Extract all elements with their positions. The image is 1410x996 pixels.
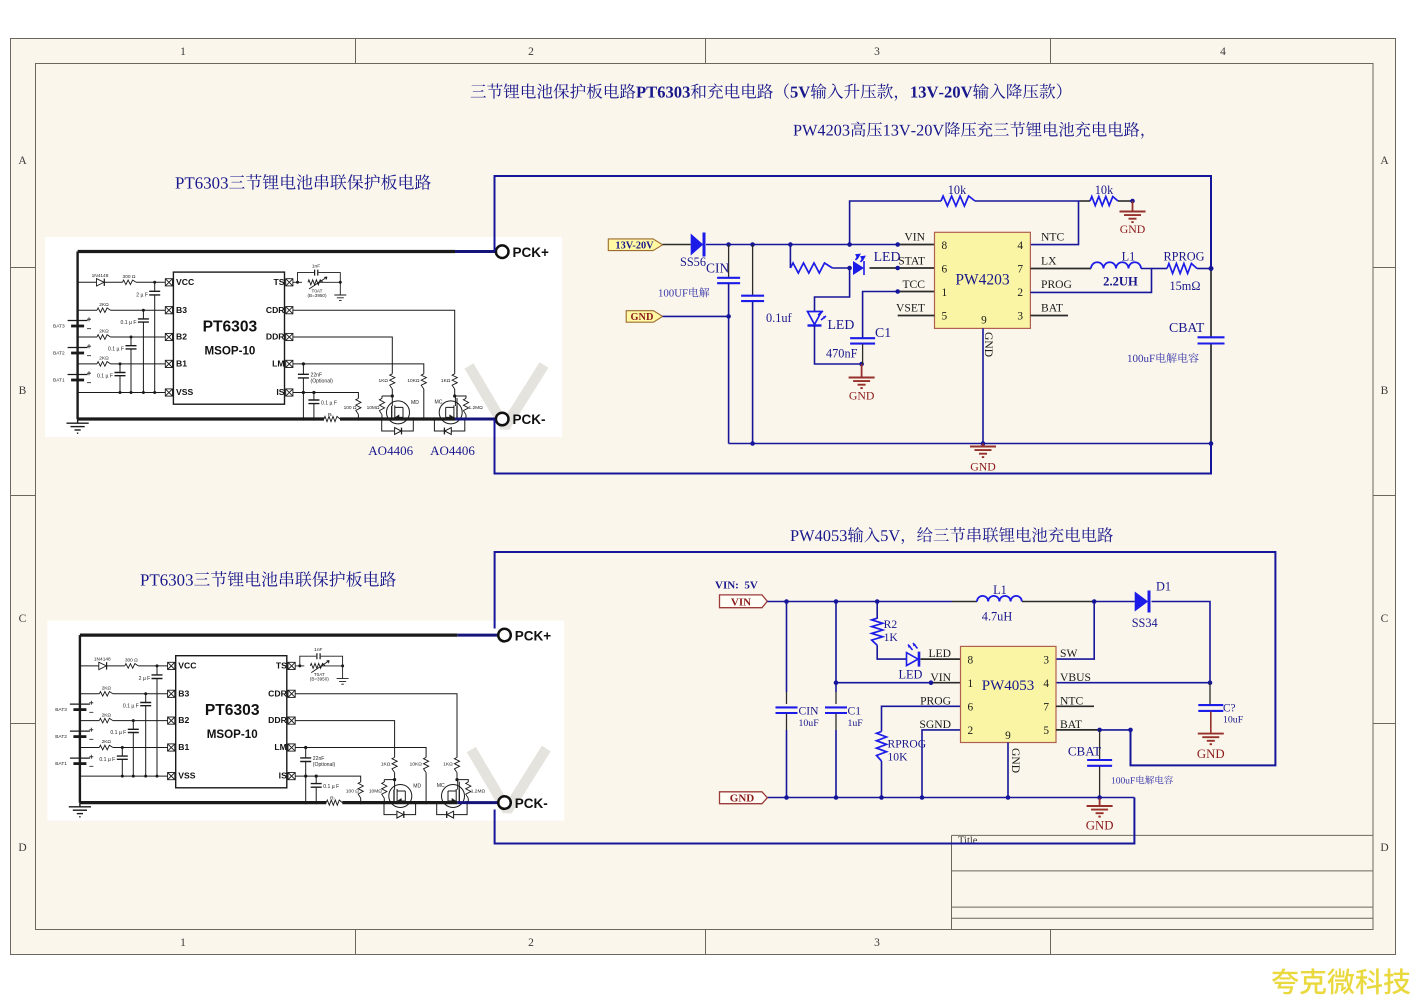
wire LM	[293, 364, 424, 374]
wire SGND	[922, 730, 961, 798]
ground (image)	[67, 419, 89, 433]
LED (STAT)	[853, 255, 865, 276]
svg-text:CIN: CIN	[706, 261, 730, 276]
op-amp U2 PW4053	[961, 646, 1057, 742]
svg-text:LED: LED	[828, 317, 855, 332]
ground symbol at 10k	[1132, 201, 1134, 212]
wire ground rail	[729, 443, 1211, 445]
watermark	[469, 365, 544, 427]
svg-text:BAT: BAT	[1060, 718, 1082, 731]
svg-text:VSET: VSET	[896, 302, 925, 315]
svg-text:5: 5	[942, 311, 948, 323]
thermistor network on TS	[293, 270, 346, 301]
body diode M2	[434, 419, 464, 434]
svg-text:0.1 µ F: 0.1 µ F	[108, 347, 124, 353]
svg-text:C: C	[19, 613, 27, 625]
svg-text:BAT1: BAT1	[53, 378, 65, 384]
wire 10k row	[850, 201, 941, 245]
svg-text:AO4406: AO4406	[368, 443, 413, 458]
svg-text:7: 7	[1017, 263, 1023, 275]
svg-text:470nF: 470nF	[826, 347, 858, 361]
svg-text:GND: GND	[970, 460, 996, 474]
wire PCK- to bottom edge	[495, 419, 1212, 474]
svg-text:10K: 10K	[888, 751, 909, 764]
svg-text:1.2MΩ: 1.2MΩ	[469, 405, 484, 411]
battery BAT1	[68, 374, 88, 376]
resistor RPROG 10K	[882, 706, 961, 731]
svg-text:0.1 µ F: 0.1 µ F	[321, 401, 337, 407]
inductor L1 4.7uH	[977, 596, 1022, 602]
resistor 2K (B2)	[97, 335, 111, 340]
svg-text:D1: D1	[1156, 580, 1171, 594]
svg-text:4.7uH: 4.7uH	[982, 610, 1013, 624]
svg-text:13V-20V: 13V-20V	[615, 241, 654, 252]
svg-text:(Optional): (Optional)	[311, 379, 334, 385]
wire TCC	[863, 292, 898, 339]
wire NTC to 10k row	[1030, 201, 1078, 245]
wire VBUS	[1056, 682, 1210, 684]
svg-text:C1: C1	[848, 705, 862, 718]
resistor R2 1K	[876, 602, 878, 619]
svg-text:GND: GND	[1197, 747, 1225, 761]
resistor Rs inline	[324, 416, 340, 421]
svg-text:BAT2: BAT2	[53, 351, 65, 357]
capacitor CIN 10uF	[786, 602, 788, 693]
svg-text:6: 6	[968, 702, 974, 714]
ground symbol (LED/C1)	[861, 364, 863, 378]
svg-text:GND: GND	[982, 332, 995, 357]
pin VSS	[165, 389, 172, 396]
svg-text:2: 2	[528, 46, 534, 58]
battery BAT3	[68, 320, 88, 322]
pin CDR	[286, 307, 293, 314]
svg-text:7: 7	[1043, 702, 1049, 714]
svg-text:VIN: VIN	[904, 231, 925, 244]
svg-text:1: 1	[180, 937, 186, 949]
PT6303 protection-board sub-circuit image (top instance)	[45, 237, 562, 437]
svg-text:D: D	[18, 842, 26, 854]
svg-text:B2: B2	[176, 332, 187, 342]
PW4053 circuit	[495, 552, 1276, 844]
capacitor C1 470nF	[850, 338, 875, 343]
net tag VIN	[720, 595, 768, 608]
svg-text:GND: GND	[849, 389, 875, 403]
svg-text:100 Ω: 100 Ω	[344, 405, 357, 411]
transistor M1 (AO4406)	[387, 401, 410, 424]
svg-text:SS56: SS56	[680, 255, 706, 269]
svg-text:LED: LED	[874, 249, 901, 264]
svg-text:4: 4	[1043, 678, 1049, 690]
svg-text:PCK-: PCK-	[515, 796, 548, 811]
connector PCK-	[496, 413, 509, 426]
capacitor 22nF	[302, 364, 304, 393]
svg-text:3: 3	[1017, 311, 1023, 323]
svg-text:PCK+: PCK+	[513, 245, 550, 260]
svg-text:2: 2	[968, 725, 974, 737]
svg-text:PCK+: PCK+	[515, 628, 552, 643]
svg-text:2: 2	[1017, 287, 1023, 299]
svg-text:CBAT: CBAT	[1068, 744, 1101, 759]
svg-text:GND: GND	[1009, 748, 1022, 773]
svg-text:1KΩ: 1KΩ	[379, 378, 389, 384]
svg-text:GND: GND	[730, 793, 755, 805]
resistor 1.2M	[455, 396, 466, 398]
capacitor C1 1uF	[835, 602, 837, 683]
svg-text:8: 8	[942, 240, 948, 252]
svg-text:2 µ F: 2 µ F	[136, 293, 148, 299]
svg-text:1K: 1K	[884, 631, 899, 644]
svg-text:C1: C1	[875, 325, 891, 340]
svg-text:10MΩ: 10MΩ	[367, 405, 380, 411]
pin B3	[165, 307, 172, 314]
svg-text:CIN: CIN	[799, 705, 820, 718]
svg-text:10uF: 10uF	[799, 718, 820, 729]
svg-text:300 Ω: 300 Ω	[123, 274, 136, 280]
capacitor 0.1uf	[752, 245, 754, 296]
connector PCK-	[498, 796, 511, 809]
PW4203 circuit	[495, 176, 1225, 474]
svg-text:1uF: 1uF	[848, 718, 864, 729]
diode D1 SS34	[1135, 592, 1149, 612]
svg-text:10uF: 10uF	[1223, 715, 1244, 726]
svg-text:1: 1	[968, 678, 974, 690]
body diode M1	[382, 419, 414, 434]
resistor 2K (B1)	[97, 362, 111, 367]
svg-text:AO4406: AO4406	[430, 443, 475, 458]
svg-text:PT6303: PT6303	[203, 318, 258, 335]
svg-text:CBAT: CBAT	[1169, 320, 1205, 335]
svg-text:4: 4	[1220, 46, 1226, 58]
capacitor C? 10uF	[1209, 683, 1211, 705]
capacitor CIN	[728, 245, 730, 278]
svg-text:C: C	[1381, 613, 1389, 625]
svg-text:2KΩ: 2KΩ	[99, 329, 109, 335]
svg-text:0.1uf: 0.1uf	[766, 311, 793, 325]
svg-text:CDR: CDR	[266, 305, 285, 315]
svg-text:TCC: TCC	[902, 278, 925, 291]
svg-text:PCK-: PCK-	[513, 412, 546, 427]
svg-text:BAT: BAT	[1041, 302, 1063, 315]
svg-text:DDR: DDR	[266, 332, 285, 342]
inductor L1 2.2UH	[1091, 262, 1141, 268]
svg-text:IS: IS	[276, 387, 284, 397]
net label 13V-20V	[608, 239, 662, 251]
svg-text:1: 1	[180, 46, 186, 58]
resistor 10M	[381, 396, 383, 398]
wire thick top	[78, 250, 455, 253]
svg-text:STAT: STAT	[898, 254, 925, 267]
capacitor 0.1uF column x=143.4	[142, 310, 144, 392]
label 100uF电解电容	[1128, 353, 1199, 363]
svg-text:4: 4	[1017, 240, 1023, 252]
svg-text:B: B	[19, 385, 27, 397]
svg-text:MSOP-10: MSOP-10	[204, 345, 255, 358]
resistor 300	[123, 280, 137, 285]
svg-text:1nF: 1nF	[312, 264, 320, 270]
resistor 10K (LM)	[421, 374, 426, 389]
watermark 夸克微科技	[1272, 968, 1410, 994]
resistor 10k #1	[941, 196, 975, 206]
svg-text:Rₗ: Rₗ	[328, 412, 332, 418]
svg-text:3: 3	[874, 46, 880, 58]
diode 1N4148	[97, 279, 105, 286]
PT6303 sub-circuit image (bottom instance)	[47, 621, 564, 821]
label 100UF电解	[659, 287, 709, 297]
wire IS	[293, 393, 359, 399]
capacitor 2uF column	[154, 282, 156, 392]
wire pin9 SGND	[1007, 743, 1009, 798]
subtitle bottom-left	[140, 571, 395, 587]
battery BAT2	[68, 347, 88, 349]
wire VIN rail	[767, 601, 952, 603]
resistor 100ohm	[356, 398, 361, 414]
svg-text:6: 6	[942, 263, 948, 275]
wire LX	[1030, 268, 1091, 270]
svg-text:VIN: VIN	[731, 596, 751, 608]
svg-text:D: D	[1380, 842, 1388, 854]
svg-text:PROG: PROG	[920, 694, 952, 707]
transistor M2 (AO4406)	[439, 401, 462, 424]
svg-text:SW: SW	[1060, 647, 1077, 660]
title line 2	[793, 122, 1143, 139]
svg-text:1KΩ: 1KΩ	[441, 378, 451, 384]
wire B3 row	[78, 309, 166, 311]
svg-text:5: 5	[1043, 725, 1049, 737]
main title line 1	[471, 83, 1062, 100]
wire PCK+ to top edge / BAT loop	[495, 552, 1276, 765]
svg-text:A: A	[18, 155, 27, 167]
wire VIN pin	[836, 682, 931, 684]
svg-text:BAT3: BAT3	[53, 324, 65, 330]
wire VSS row	[78, 392, 166, 394]
wire B1 row	[78, 363, 166, 365]
resistor 1K (CDR)	[452, 374, 457, 389]
svg-text:R2: R2	[884, 618, 898, 631]
svg-text:2.2UH: 2.2UH	[1103, 275, 1138, 289]
title block	[952, 835, 1374, 929]
svg-text:MC: MC	[435, 400, 443, 406]
svg-text:10k: 10k	[1095, 183, 1114, 197]
svg-text:NTC: NTC	[1041, 231, 1064, 244]
pin B1	[165, 360, 172, 367]
svg-text:GND: GND	[1120, 222, 1146, 236]
svg-text:A: A	[1380, 155, 1389, 167]
svg-text:GND: GND	[631, 312, 654, 323]
connector PCK+	[498, 629, 511, 642]
wire VIN rail	[663, 244, 691, 246]
svg-text:1: 1	[942, 287, 948, 299]
capacitor CBAT	[1198, 337, 1225, 343]
wire SW	[1056, 602, 1094, 660]
svg-text:GND: GND	[1086, 819, 1114, 833]
wire CBAT right edge segments	[1210, 269, 1212, 338]
svg-text:RPROG: RPROG	[888, 738, 927, 751]
svg-text:VIN: 5V: VIN: 5V	[715, 580, 758, 592]
svg-text:SS34: SS34	[1132, 616, 1158, 630]
svg-text:VIN: VIN	[930, 671, 951, 684]
svg-text:Title: Title	[958, 836, 978, 847]
svg-text:PW4053: PW4053	[982, 678, 1035, 694]
wire VCC row	[78, 281, 166, 283]
wire thick bottom	[78, 417, 324, 420]
svg-text:PW4203: PW4203	[955, 271, 1010, 288]
ground symbol bottom	[982, 444, 984, 447]
wire GND rail	[767, 797, 1134, 799]
resistor (STAT series)	[789, 245, 791, 269]
svg-text:LED: LED	[899, 667, 923, 681]
svg-text:0.1 µ F: 0.1 µ F	[121, 320, 137, 326]
pin DDR	[286, 333, 293, 340]
wire BAT	[1056, 729, 1100, 731]
svg-text:2KΩ: 2KΩ	[99, 356, 109, 362]
wire DDR	[293, 337, 392, 374]
pin VCC	[165, 279, 172, 286]
svg-text:(B=3950): (B=3950)	[307, 293, 326, 298]
PW4053 title	[790, 527, 1112, 544]
svg-text:VCC: VCC	[176, 277, 194, 287]
svg-text:B: B	[1381, 385, 1389, 397]
capacitor 0.1uF (IS)	[313, 393, 315, 420]
svg-text:C?: C?	[1223, 703, 1236, 715]
resistor 1K (DDR)	[390, 374, 395, 389]
pin IS	[286, 389, 293, 396]
svg-text:1N4148: 1N4148	[92, 273, 109, 279]
svg-text:VSS: VSS	[176, 387, 193, 397]
svg-text:SGND: SGND	[919, 718, 951, 731]
capacitor CBAT	[1099, 730, 1101, 760]
resistor RPROG 15mohm	[1167, 264, 1197, 274]
diode SS56	[691, 234, 704, 256]
svg-text:B3: B3	[176, 305, 187, 315]
LED (lower, vertical)	[808, 312, 822, 325]
LED indicator	[907, 653, 919, 666]
svg-text:LED: LED	[928, 647, 951, 660]
svg-text:B1: B1	[176, 359, 187, 369]
svg-text:3: 3	[1043, 654, 1049, 666]
resistor 10k #2	[1090, 197, 1118, 206]
ground symbol CBAT	[1099, 798, 1101, 807]
pin LM	[286, 360, 293, 367]
svg-text:9: 9	[1005, 730, 1011, 742]
svg-text:LM: LM	[272, 359, 284, 369]
svg-text:MD: MD	[411, 400, 419, 406]
wire to LED2	[815, 268, 850, 311]
wire PCK+ to top edge	[495, 176, 1212, 269]
svg-text:L1: L1	[1122, 249, 1136, 263]
wire PCK- to bottom edge / GND loop	[495, 798, 1135, 844]
svg-text:10k: 10k	[948, 183, 967, 197]
svg-text:9: 9	[981, 315, 987, 327]
svg-text:PROG: PROG	[1041, 278, 1073, 291]
svg-text:2: 2	[528, 937, 534, 949]
label 100uF电解电容 (bottom)	[1112, 776, 1173, 785]
svg-text:3: 3	[874, 937, 880, 949]
resistor 2K (B3)	[97, 308, 111, 313]
net label GND (yellow tag)	[626, 311, 662, 323]
subtitle top-left	[175, 174, 430, 190]
pin TS	[286, 279, 293, 286]
svg-text:LX: LX	[1041, 254, 1057, 267]
svg-text:0.1 µ F: 0.1 µ F	[97, 373, 113, 379]
svg-text:TS: TS	[274, 277, 285, 287]
svg-text:8: 8	[968, 654, 974, 666]
wire CDR	[293, 310, 455, 374]
wire B2 row	[78, 336, 166, 338]
wire pin9 GND	[982, 328, 984, 443]
capacitor 0.1uF column x=131.0	[130, 337, 132, 393]
svg-text:RPROG: RPROG	[1163, 249, 1204, 263]
pin B2	[165, 333, 172, 340]
svg-text:10KΩ: 10KΩ	[407, 378, 420, 384]
op-amp U1 PW4203	[935, 232, 1031, 328]
capacitor 0.1uF column x=120.0	[119, 364, 121, 393]
wire left vertical	[76, 252, 78, 420]
svg-text:15mΩ: 15mΩ	[1169, 279, 1200, 293]
wire image to PCK+ (top)	[455, 250, 496, 253]
IC PT6303 body	[173, 272, 284, 404]
svg-text:L1: L1	[993, 583, 1007, 597]
connector PCK+	[496, 245, 509, 258]
svg-text:VBUS: VBUS	[1060, 671, 1091, 684]
net tag GND	[720, 792, 768, 804]
svg-text:2KΩ: 2KΩ	[99, 302, 109, 308]
